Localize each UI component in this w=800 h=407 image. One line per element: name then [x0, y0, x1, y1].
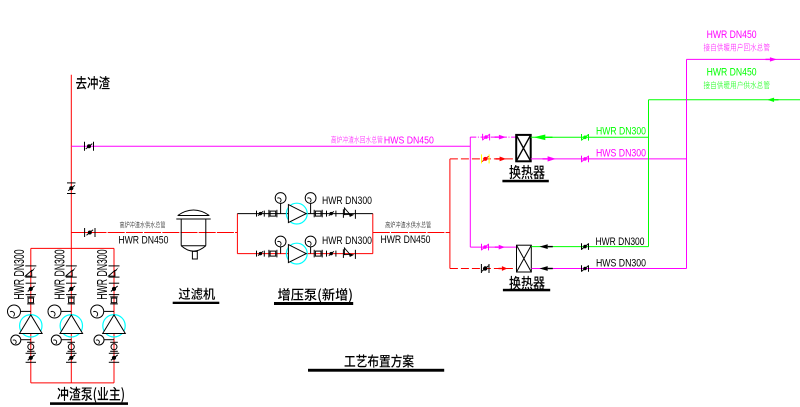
wire: magenta feed to HX2	[470, 246, 516, 248]
check valve	[343, 248, 355, 259]
wire: magenta HWR DN450 to users	[687, 58, 800, 60]
wire: red riser to heat exchangers	[449, 159, 451, 269]
valve on magenta line	[582, 265, 589, 272]
flanged fitting	[269, 210, 277, 218]
label: qu chongzha (to slag flushing)	[76, 76, 86, 90]
flange joint	[257, 251, 265, 257]
label: chongzhabeng yezhu (slag pumps owner)	[57, 387, 68, 401]
gate valve	[66, 353, 77, 362]
label: HWR DN450 main pipe right	[386, 221, 390, 228]
filter F1 (guolvji)	[176, 210, 210, 259]
svg-text:HWR DN300: HWR DN300	[322, 195, 372, 207]
svg-text:HWR DN300: HWR DN300	[94, 249, 111, 299]
wire: red feed to HX1	[450, 158, 516, 160]
flanged fitting	[314, 210, 322, 218]
svg-text:HWR DN450: HWR DN450	[707, 29, 757, 41]
pressure gauge PI	[305, 193, 316, 214]
wire: magenta HWS DN300 from HX1	[531, 158, 687, 160]
wire: red feed to HX2	[450, 268, 517, 270]
gate valve	[66, 283, 77, 294]
svg-text:HWS DN450: HWS DN450	[384, 136, 434, 147]
gate valve	[26, 283, 36, 294]
wire: slag pump top manifold	[31, 247, 114, 249]
flange joint	[327, 211, 336, 217]
flow arrow into HX2 hws	[540, 266, 553, 271]
flow arrow out of HX1	[543, 156, 557, 161]
pressure gauge PI	[275, 193, 286, 214]
wire: red slag-flush riser	[70, 75, 72, 249]
flow arrow into HX1	[534, 135, 553, 141]
valve on magenta line	[582, 156, 589, 163]
wire: green HWR DN300 from HX2	[531, 246, 648, 248]
valve V1 on riser	[67, 183, 76, 194]
valve on HX1 red feed	[482, 154, 490, 163]
wire: slag pump branch	[30, 248, 32, 383]
flanged fitting	[27, 297, 34, 304]
wire: magenta riser to heat exchangers	[469, 137, 471, 247]
flanged fitting	[27, 342, 34, 351]
flanged fitting	[269, 250, 277, 258]
gate valve	[26, 353, 36, 362]
wire: magenta feed to HX1	[470, 136, 516, 138]
heat exchanger HX1	[516, 135, 531, 161]
wire: red HWR DN450 main left segment	[71, 232, 237, 234]
label: huanreqi (heat exchanger) top	[509, 165, 520, 179]
wire: booster branch	[237, 213, 372, 215]
slag pump (triangle in cyan circle)	[20, 315, 43, 337]
label: huanreqi (heat exchanger) bottom	[509, 276, 520, 290]
flanged fitting	[68, 342, 76, 351]
label: HWS DN450 main pipe (magenta)	[331, 136, 336, 144]
label: HWR DN450 main pipe left	[120, 221, 124, 228]
pressure gauge	[91, 305, 114, 318]
svg-text:HWR DN300: HWR DN300	[11, 249, 28, 299]
flow arrow into HX2	[540, 244, 553, 249]
valve on HX2 red feed	[481, 264, 489, 273]
svg-text:HWR DN300: HWR DN300	[51, 249, 68, 299]
pressure gauge PI	[305, 236, 316, 254]
flow arrow	[495, 135, 506, 140]
gate valve	[109, 353, 119, 362]
svg-text:HWS DN300: HWS DN300	[596, 258, 646, 270]
wire: booster branch	[237, 253, 372, 255]
wire: booster left tee	[236, 214, 238, 254]
check valve	[343, 208, 355, 219]
svg-text:HWR DN450: HWR DN450	[381, 234, 431, 246]
wire: magenta HWS DN300 from HX2	[531, 268, 686, 270]
pressure gauge	[94, 335, 114, 345]
wire: green HWR DN450 to users	[649, 99, 800, 101]
flanged fitting	[314, 250, 322, 258]
slag pump (triangle in cyan circle)	[103, 315, 126, 337]
valve V2 on HWS main	[85, 142, 94, 151]
svg-text:HWS DN300: HWS DN300	[596, 148, 646, 160]
slag pump (triangle in cyan circle)	[60, 315, 83, 337]
wire: magenta HWS DN450 main	[71, 145, 470, 147]
pressure gauge PI	[275, 236, 286, 254]
wire: slag pump bottom manifold	[31, 382, 114, 384]
valve on green line	[582, 243, 589, 250]
flow arrow from users	[767, 98, 779, 102]
wire: magenta riser	[686, 59, 688, 268]
check valve	[25, 266, 36, 277]
pressure gauge	[11, 335, 31, 345]
title: gongyi buzhi fangan (process layout plan)	[345, 356, 356, 367]
flow arrow to users	[766, 57, 778, 61]
wire: green HWR DN300 from HX1	[531, 136, 649, 138]
booster pump P (triangle in cyan circle)	[286, 243, 307, 264]
valve on HX1 magenta feed	[483, 134, 490, 141]
svg-text:HWR DN300: HWR DN300	[596, 125, 646, 137]
label: connect to heating-user return main (magenta)	[704, 43, 710, 51]
gate valve	[109, 283, 119, 294]
heat exchanger HX2	[517, 245, 532, 272]
check valve	[108, 266, 119, 277]
valve on green line	[582, 134, 589, 141]
wire: red HWR DN450 main right segment	[373, 232, 450, 234]
wire: booster right tee	[372, 214, 374, 254]
flow arrow	[499, 266, 508, 271]
label: zengyabeng xinzeng (booster pumps new)	[278, 288, 290, 301]
flange joint	[257, 211, 265, 217]
valve V3 on HWR main	[85, 228, 95, 237]
svg-text:HWR DN300: HWR DN300	[596, 236, 645, 248]
wire: green riser	[648, 100, 650, 247]
pressure gauge	[48, 305, 71, 318]
booster pump P (triangle in cyan circle)	[286, 203, 307, 224]
flanged fitting	[110, 342, 118, 351]
flange joint	[327, 251, 336, 257]
flow arrow	[496, 157, 507, 162]
svg-text:HWR DN300: HWR DN300	[322, 235, 372, 247]
flanged fitting	[110, 297, 118, 304]
wire: slag pump branch	[70, 248, 72, 383]
flow arrow	[495, 245, 505, 250]
pressure gauge	[51, 335, 71, 345]
valve on HX2 magenta feed	[482, 244, 489, 251]
label: guolvji (filter)	[179, 288, 191, 300]
svg-text:HWR DN450: HWR DN450	[118, 234, 168, 246]
svg-text:HWR DN450: HWR DN450	[707, 66, 757, 78]
label: connect to heating-user supply main (green)	[704, 81, 710, 89]
check valve	[66, 266, 77, 277]
flanged fitting	[68, 297, 76, 304]
wire: slag pump branch	[113, 248, 115, 383]
pressure gauge	[8, 305, 31, 318]
